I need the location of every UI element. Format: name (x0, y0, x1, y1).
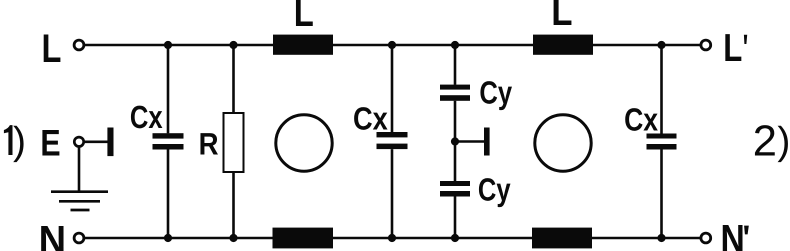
junction node: Cy midpoint (451, 137, 459, 145)
chassis bar at E (107, 128, 113, 157)
terminal N' (701, 233, 711, 243)
label L' (line output terminal) (723, 27, 747, 70)
svg-text:2: 2 (753, 118, 777, 166)
wire bottom rail: terminal N to inductor L3 (84, 237, 273, 240)
junction node: R bottom (229, 234, 237, 242)
svg-text:): ) (777, 120, 790, 163)
wire top rail: inductor L1 to inductor L2 (333, 44, 533, 47)
common-mode choke core 1 (276, 115, 332, 171)
svg-text:L: L (551, 0, 572, 34)
svg-text:Cx: Cx (130, 99, 163, 135)
svg-text:Cx: Cx (624, 101, 658, 137)
junction node: Cy top (451, 41, 459, 49)
svg-text:): ) (13, 120, 26, 163)
terminal L' (701, 40, 711, 50)
wire: terminal E down to ground (78, 146, 81, 191)
junction node: Cx1 top (164, 41, 172, 49)
junction node: Cx3 bottom (657, 234, 665, 242)
label N' (neutral output terminal) (721, 218, 749, 251)
common-mode choke core 2 (535, 115, 591, 171)
inductor L1 (top-left winding) (273, 35, 333, 55)
svg-text:L: L (294, 0, 314, 35)
terminal E (74, 137, 83, 146)
capacitor Cy2 (lower Y-cap) (440, 181, 470, 238)
svg-text:E: E (40, 123, 60, 164)
capacitor Cy1 (upper Y-cap) (440, 45, 470, 181)
svg-text:L: L (723, 27, 742, 70)
junction node: R top (229, 41, 237, 49)
capacitor Cx1 (153, 45, 184, 238)
ground symbol (51, 192, 108, 210)
svg-text:N: N (39, 218, 66, 251)
svg-text:R: R (199, 127, 219, 162)
junction node: Cx2 bottom (388, 234, 396, 242)
inductor L2 (top-right winding) (533, 35, 593, 55)
resistor R (224, 45, 244, 238)
inductor L4 (bottom-right winding) (532, 228, 592, 249)
wire bottom rail: inductor L4 to terminal N' (592, 237, 701, 240)
label 2) (right port marker) (753, 118, 790, 166)
terminal N (74, 233, 84, 243)
chassis bar at Cy midpoint (484, 128, 490, 156)
wire bottom rail: inductor L3 to inductor L4 (333, 237, 532, 240)
wire: Cy midpoint to chassis bar (455, 140, 484, 143)
wire top rail: terminal L to inductor L1 (84, 44, 274, 47)
svg-text:Cy: Cy (478, 171, 511, 207)
svg-text:Cx: Cx (353, 101, 388, 137)
svg-text:Cy: Cy (479, 75, 512, 111)
junction node: Cx3 top (657, 41, 665, 49)
svg-text:N: N (721, 218, 745, 251)
junction node: Cx2 top (388, 41, 396, 49)
junction node: Cy bottom (451, 234, 459, 242)
wire top rail: inductor L2 to terminal L' (593, 44, 701, 47)
terminal L (74, 40, 84, 50)
junction node: Cx1 bottom (164, 234, 172, 242)
inductor L3 (bottom-left winding) (273, 228, 334, 249)
svg-text:L: L (42, 27, 62, 71)
capacitor Cx2 (377, 45, 408, 238)
label 1) (left port marker) (4, 120, 26, 163)
wire: terminal E to chassis bar (84, 141, 108, 144)
capacitor Cx3 (647, 45, 677, 238)
